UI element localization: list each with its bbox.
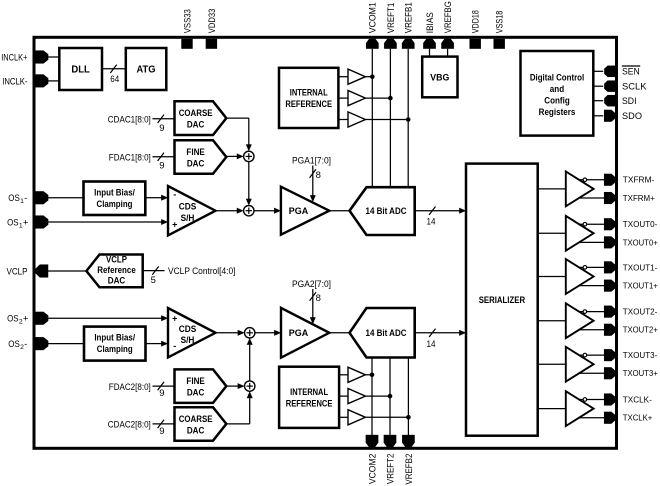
lvds buffer TXOUT3: [566, 347, 594, 382]
svg-text:INCLK+: INCLK+: [1, 52, 28, 63]
block internal reference 1: [279, 68, 338, 128]
block CDS S/H 1: [168, 186, 216, 235]
svg-text:COARSE: COARSE: [179, 414, 213, 425]
wire TXFRM+ out: [579, 197, 605, 199]
lvds buffer TXFRM: [566, 172, 594, 207]
svg-text:+: +: [172, 219, 177, 229]
wire DAC summer 1 to main summer: [248, 162, 250, 199]
svg-text:S/H: S/H: [181, 335, 195, 345]
svg-text:VREFBG: VREFBG: [443, 1, 454, 33]
svg-text:TXOUT1-: TXOUT1-: [623, 263, 658, 272]
pin VSS18: [494, 39, 505, 49]
pin VREFT2: [384, 435, 397, 447]
summer main 1: [244, 206, 254, 216]
lvds buffer TXOUT0: [566, 216, 594, 251]
svg-text:TXFRM+: TXFRM+: [623, 194, 655, 203]
svg-text:8: 8: [316, 293, 321, 304]
wire ADC 2 to serializer bus 14: [415, 332, 460, 334]
block 14 bit ADC 1: [350, 187, 415, 235]
wire serializer to TXOUT3 buffer: [538, 363, 566, 365]
svg-text:VREFB1: VREFB1: [404, 2, 415, 33]
wire ref2 buffer B in: [339, 395, 348, 397]
buffer ref1 B: [348, 91, 365, 106]
lvds buffer TXCLK: [566, 391, 594, 426]
pin TXCLK-: [604, 394, 615, 406]
buffer ref2 C: [348, 410, 365, 425]
block ATG: [126, 48, 167, 90]
svg-text:VCLP: VCLP: [7, 266, 28, 277]
pin IBIAS: [423, 39, 436, 49]
svg-text:ATG: ATG: [137, 64, 156, 76]
svg-text:VBG: VBG: [430, 72, 449, 83]
svg-text:TXOUT3-: TXOUT3-: [623, 351, 658, 360]
pin TXOUT0+: [604, 236, 615, 248]
wire fine DAC 2 to summer 2: [226, 385, 238, 387]
buffer ref2 B: [348, 389, 365, 404]
svg-text:FINE: FINE: [186, 147, 205, 158]
pin VCOM2: [366, 435, 379, 447]
wire FDAC2 bus 9: [153, 385, 175, 387]
wire INCLK+ to DLL: [47, 56, 60, 58]
pin VDD33: [206, 39, 217, 49]
pin VSS33: [181, 39, 192, 49]
lvds buffer TXOUT1: [566, 259, 594, 294]
wire TXOUT1+ out: [579, 285, 605, 287]
pin TXFRM+: [604, 192, 615, 204]
pin TXOUT2-: [604, 306, 615, 318]
wire CDAC1 bus 9: [153, 118, 175, 120]
wire SDI: [593, 100, 603, 102]
svg-text:DAC: DAC: [187, 159, 205, 170]
svg-text:FDAC1[8:0]: FDAC1[8:0]: [109, 153, 151, 164]
wire serializer to TXCLK buffer: [538, 408, 566, 410]
svg-text:64: 64: [110, 74, 119, 85]
svg-text:14: 14: [427, 339, 436, 350]
svg-text:FDAC2[8:0]: FDAC2[8:0]: [109, 382, 151, 393]
wire SEN: [593, 70, 603, 72]
wire ref2 buffer A in: [339, 374, 348, 376]
svg-text:OS: OS: [8, 339, 19, 350]
pin TXOUT3-: [604, 349, 615, 361]
wire TXOUT3- out: [579, 354, 605, 356]
svg-text:VREFT2: VREFT2: [385, 454, 396, 485]
wire TXOUT3+ out: [579, 372, 605, 374]
wire VREFB1 net: [407, 49, 409, 187]
svg-text:PGA: PGA: [289, 206, 309, 217]
block VCLP reference DAC: [86, 255, 142, 288]
svg-text:Reference: Reference: [97, 265, 136, 276]
wire PGA 2 to ADC 2: [329, 332, 349, 334]
block DLL: [59, 48, 102, 90]
svg-text:-: -: [173, 341, 176, 351]
wire VREFB2 net: [407, 358, 409, 436]
svg-text:OS: OS: [7, 314, 19, 325]
svg-text:9: 9: [159, 388, 164, 399]
wire VREFBG to VBG: [447, 49, 449, 57]
svg-text:Input Bias/: Input Bias/: [94, 188, 135, 199]
svg-text:Digital Control: Digital Control: [530, 73, 584, 84]
wire PGA2 control bus 8: [312, 289, 314, 318]
svg-text:Config: Config: [544, 96, 570, 107]
svg-text:VDD33: VDD33: [207, 9, 218, 34]
wire VCOM2 net: [371, 358, 373, 436]
svg-text:SCLK: SCLK: [622, 82, 647, 93]
svg-text:SDO: SDO: [622, 111, 642, 122]
pin SDI: [604, 95, 615, 106]
svg-text:VCOM2: VCOM2: [367, 454, 378, 485]
block digital control and config registers: [521, 51, 594, 136]
wire input bias 1 to CDS: [146, 197, 162, 199]
svg-text:14 Bit ADC: 14 Bit ADC: [366, 206, 407, 217]
wire ref1 buffer A in: [338, 76, 348, 78]
block input bias clamping 1: [84, 182, 146, 216]
wire ADC 1 to serializer bus 14: [415, 210, 460, 212]
wire fine DAC 1 to summer: [226, 155, 237, 157]
svg-text:8: 8: [316, 170, 321, 181]
pin OS2-: [36, 337, 49, 350]
svg-text:+: +: [23, 314, 29, 325]
svg-text:CDAC1[8:0]: CDAC1[8:0]: [108, 115, 151, 126]
pin SEN: [604, 66, 615, 77]
wire TXCLK+ out: [579, 417, 605, 419]
svg-text:INTERNAL: INTERNAL: [290, 387, 328, 398]
pin INCLK-: [36, 74, 49, 87]
pin TXOUT1+: [604, 280, 615, 292]
wire TXOUT2+ out: [579, 329, 605, 331]
svg-text:PGA2[7:0]: PGA2[7:0]: [292, 279, 331, 290]
svg-text:VDD18: VDD18: [471, 10, 482, 33]
block coarse DAC 1: [175, 101, 227, 135]
wire DAC summer 2 to main summer 2: [249, 344, 251, 381]
lvds buffer TXOUT2: [566, 303, 594, 338]
svg-text:9: 9: [159, 161, 164, 172]
wire serializer to TXFRM buffer: [538, 188, 566, 190]
wire CDAC2 bus 9: [153, 423, 175, 425]
summer DAC 1: [244, 151, 254, 161]
wire OS2- to input bias 2: [47, 343, 84, 345]
svg-text:OS: OS: [8, 193, 19, 204]
wire ref1 buffer B out to VREFT1: [365, 97, 390, 99]
pin VREFBG: [441, 39, 454, 49]
pin OS1+: [36, 216, 49, 229]
svg-text:CDS: CDS: [179, 202, 197, 212]
wire PGA 1 to ADC 1: [329, 210, 349, 212]
wire ref1 buffer C in: [338, 119, 348, 121]
wire TXCLK- out: [579, 399, 605, 401]
wire INCLK- to DLL: [47, 80, 60, 82]
block internal reference 2: [279, 367, 339, 428]
chip boundary: [34, 37, 617, 448]
wire serializer to TXOUT0 buffer: [538, 232, 566, 234]
svg-text:CDAC2[8:0]: CDAC2[8:0]: [108, 420, 151, 431]
wire VCLP pin to DAC: [47, 270, 87, 272]
pin TXCLK+: [604, 412, 615, 424]
svg-text:TXOUT3+: TXOUT3+: [623, 369, 658, 378]
wire ref1 buffer C out to VREFB1: [365, 119, 408, 121]
summer main 2: [245, 328, 255, 338]
svg-text:CDS: CDS: [179, 324, 197, 334]
wire serializer to TXOUT1 buffer: [538, 276, 566, 278]
svg-text:IBIAS: IBIAS: [425, 12, 436, 33]
svg-text:Clamping: Clamping: [97, 199, 133, 210]
wire coarse DAC 2 to summer 2: [226, 423, 249, 425]
svg-text:TXFRM-: TXFRM-: [623, 176, 655, 185]
block fine DAC 1: [175, 140, 227, 174]
pin VREFT1: [384, 39, 397, 49]
svg-text:+: +: [172, 314, 177, 324]
svg-text:COARSE: COARSE: [179, 108, 213, 119]
wire ref2 buffer B out to VREFT2: [365, 395, 390, 397]
wire PGA1 control bus 8: [312, 166, 314, 196]
svg-text:14 Bit ADC: 14 Bit ADC: [366, 328, 407, 339]
svg-text:-: -: [24, 339, 27, 350]
svg-text:VCOM1: VCOM1: [368, 2, 379, 33]
pin VCOM1: [366, 39, 379, 49]
summer DAC 2: [245, 381, 255, 391]
svg-text:SEN: SEN: [622, 67, 640, 78]
svg-text:DAC: DAC: [187, 120, 205, 131]
wire TXOUT0+ out: [579, 241, 605, 243]
wire ref2 buffer C in: [339, 416, 348, 418]
svg-text:SERIALIZER: SERIALIZER: [479, 295, 525, 306]
svg-text:and: and: [550, 84, 565, 95]
pin SCLK: [604, 81, 615, 92]
wire OS1+ to CDS: [47, 221, 162, 223]
svg-text:S/H: S/H: [181, 213, 195, 223]
svg-text:DAC: DAC: [108, 276, 126, 287]
svg-text:INTERNAL: INTERNAL: [290, 87, 328, 98]
wire input bias 2 to CDS 2: [146, 343, 162, 345]
block VBG: [422, 57, 457, 98]
wire VREFT2 net: [389, 358, 391, 436]
pin TXOUT2+: [604, 324, 615, 336]
svg-text:REFERENCE: REFERENCE: [285, 99, 332, 110]
svg-text:TXOUT0-: TXOUT0-: [623, 220, 658, 229]
svg-text:TXOUT2+: TXOUT2+: [623, 326, 658, 335]
pin OS1-: [36, 191, 49, 204]
block coarse DAC 2: [175, 407, 227, 441]
svg-text:PGA: PGA: [289, 328, 309, 339]
svg-text:VREFT1: VREFT1: [386, 3, 397, 34]
pin VCLP: [35, 265, 48, 278]
svg-text:OS: OS: [7, 217, 19, 228]
pin TXFRM-: [604, 174, 615, 186]
pin TXOUT0-: [604, 218, 615, 230]
wire CDS 1 to main summer: [216, 210, 238, 212]
svg-text:PGA1[7:0]: PGA1[7:0]: [292, 156, 331, 167]
svg-text:TXCLK-: TXCLK-: [623, 395, 652, 404]
wire SCLK: [593, 85, 603, 87]
wire TXOUT1- out: [579, 266, 605, 268]
pin OS2+: [36, 312, 49, 325]
svg-text:VSS18: VSS18: [495, 11, 506, 33]
svg-text:-: -: [173, 189, 176, 199]
amp PGA 2: [281, 308, 329, 358]
svg-text:INCLK-: INCLK-: [2, 76, 27, 87]
pin VDD18: [470, 39, 481, 49]
block input bias clamping 2: [84, 327, 146, 361]
wire ref1 buffer A out to VCOM1: [365, 76, 372, 78]
buffer ref1 A: [348, 69, 365, 84]
wire TXOUT0- out: [579, 223, 605, 225]
svg-text:14: 14: [427, 217, 436, 228]
wire TXOUT2- out: [579, 311, 605, 313]
pin SDO: [604, 110, 615, 122]
svg-text:9: 9: [159, 123, 164, 134]
block fine DAC 2: [175, 369, 227, 403]
pin VREFB1: [402, 39, 415, 49]
pin TXOUT1-: [604, 261, 615, 273]
svg-text:VCLP: VCLP: [106, 255, 127, 266]
svg-text:9: 9: [159, 426, 164, 437]
svg-text:VSS33: VSS33: [182, 9, 193, 33]
block serializer: [466, 164, 538, 436]
wire SDO: [593, 115, 603, 117]
wire OS1- to input bias 1: [47, 197, 84, 199]
block CDS S/H 2: [168, 308, 216, 357]
svg-text:VREFB2: VREFB2: [404, 454, 415, 485]
wire DLL to ATG bus 64: [102, 68, 126, 70]
wire ref2 buffer C out to VREFB2: [365, 416, 408, 418]
wire coarse DAC 1 to summer: [226, 117, 249, 119]
pin TXOUT3+: [604, 367, 615, 379]
svg-text:REFERENCE: REFERENCE: [286, 398, 333, 409]
pin INCLK+: [36, 51, 49, 64]
wire VREFT1 net: [389, 49, 391, 187]
svg-text:TXOUT1+: TXOUT1+: [623, 282, 658, 291]
amp PGA 1: [281, 187, 329, 235]
svg-text:+: +: [23, 217, 29, 228]
svg-text:Input Bias/: Input Bias/: [94, 333, 135, 344]
wire FDAC1 bus 9: [153, 156, 175, 158]
block 14 bit ADC 2: [350, 308, 415, 358]
wire CDS 2 to main summer 2: [216, 332, 238, 334]
svg-text:Clamping: Clamping: [97, 344, 133, 355]
svg-text:VCLP Control[4:0]: VCLP Control[4:0]: [168, 266, 236, 277]
svg-text:DLL: DLL: [71, 64, 90, 76]
wire main summer 1 to PGA 1: [254, 210, 275, 212]
wire VCLP control bus 5: [143, 270, 165, 272]
svg-text:DAC: DAC: [187, 388, 205, 399]
svg-text:Registers: Registers: [539, 107, 576, 118]
wire VCOM1 net: [371, 49, 373, 187]
pin VREFB2: [402, 435, 415, 447]
svg-text:TXOUT2-: TXOUT2-: [623, 308, 658, 317]
wire TXFRM- out: [579, 179, 605, 181]
svg-text:FINE: FINE: [186, 376, 205, 387]
wire ref2 buffer A out to VCOM2: [365, 374, 372, 376]
wire serializer to TXOUT2 buffer: [538, 320, 566, 322]
svg-text:TXCLK+: TXCLK+: [623, 414, 653, 423]
buffer ref1 C: [348, 112, 365, 127]
svg-text:TXOUT0+: TXOUT0+: [623, 238, 658, 247]
svg-text:SDI: SDI: [622, 96, 637, 107]
buffer ref2 A: [348, 367, 365, 382]
wire IBIAS to VBG: [429, 49, 431, 57]
wire OS2+ to CDS 2: [47, 317, 162, 319]
wire ref1 buffer B in: [338, 97, 348, 99]
svg-text:5: 5: [151, 275, 156, 286]
svg-text:DAC: DAC: [187, 425, 205, 436]
svg-text:-: -: [24, 193, 27, 204]
wire main summer 2 to PGA 2: [255, 332, 275, 334]
